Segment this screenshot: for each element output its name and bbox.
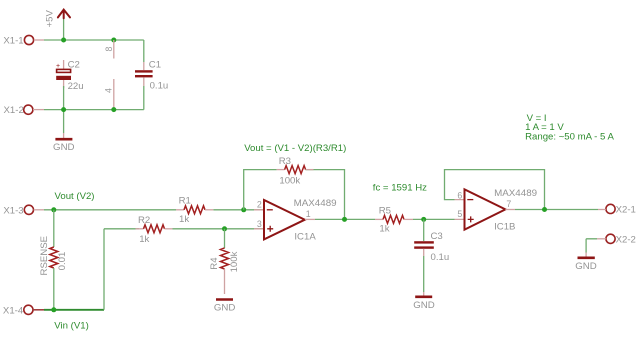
wire net IC1B feedback (445, 170, 545, 210)
label R4 (209, 257, 220, 270)
junction node GND/C2 (61, 107, 66, 112)
resistor R4 (221, 229, 229, 294)
label Vin (V1) (54, 321, 88, 332)
label R3 (279, 156, 291, 167)
label C2 (68, 60, 80, 71)
junction node feedback/out (542, 207, 547, 212)
junction node V1/RSENSE (51, 307, 56, 312)
ground GND1 (53, 133, 75, 153)
junction node GND/pin4 (111, 107, 116, 112)
wire net R3 feedback (244, 170, 345, 220)
resistor R1 (176, 206, 213, 214)
label 22u (68, 81, 84, 92)
pin 1 (306, 209, 311, 219)
wire net V1 bottom (44, 229, 139, 310)
wire net V2 row (44, 209, 264, 211)
ground GND2 (214, 300, 236, 314)
svg-text:GND: GND (575, 261, 597, 272)
label RSENSE (39, 236, 50, 275)
label X2-2 (616, 234, 636, 245)
label X2-1 (616, 204, 636, 215)
junction node C3 tap (421, 217, 426, 222)
svg-text:1: 1 (306, 209, 311, 219)
svg-text:100k: 100k (279, 175, 300, 186)
label C1 (149, 59, 161, 70)
wire net X2-2 gnd (586, 239, 597, 253)
wire net GND bottom rail (44, 86, 144, 133)
label +5V (45, 10, 56, 28)
label MAX4489 IC1A (294, 198, 337, 209)
junction node V2/R3 (241, 207, 246, 212)
connector X2-2 (597, 234, 615, 243)
op-amp IC1A (254, 200, 315, 239)
label X1-1 (3, 35, 23, 46)
label X1-2 (4, 105, 24, 116)
svg-text:+5V: +5V (45, 10, 56, 28)
connector X1-4 (24, 305, 44, 314)
connector X2-1 (598, 204, 615, 213)
capacitor C2 (56, 60, 71, 88)
svg-text:100k: 100k (229, 251, 240, 272)
ground GND4 (575, 253, 597, 273)
svg-text:Vout = (V1 - V2)(R3/R1): Vout = (V1 - V2)(R3/R1) (244, 143, 346, 154)
label C3 (431, 231, 443, 242)
svg-text:R5: R5 (379, 205, 391, 216)
pin 6 (457, 190, 462, 200)
junction node +5V/C2 (61, 38, 66, 43)
label X1-3 (3, 205, 23, 216)
svg-text:1k: 1k (179, 214, 189, 225)
svg-text:IC1A: IC1A (294, 232, 316, 243)
svg-text:0.1u: 0.1u (431, 252, 450, 263)
label R2 (138, 215, 150, 226)
svg-text:Vin (V1): Vin (V1) (54, 321, 88, 332)
label 1k R1 (179, 214, 189, 225)
label 100k R3 (279, 175, 300, 186)
svg-text:0.1u: 0.1u (150, 81, 169, 92)
connector X1-2 (24, 105, 44, 114)
svg-text:C1: C1 (149, 59, 161, 70)
capacitor C1 (135, 62, 153, 86)
svg-text:MAX4489: MAX4489 (494, 188, 537, 199)
op-amp IC1B (455, 189, 516, 229)
label 1 A = 1 V (525, 122, 564, 133)
wire net pin3 row (173, 228, 265, 230)
label 0.01 (57, 252, 68, 271)
ground GND3 (413, 292, 435, 311)
svg-text:IC1B: IC1B (494, 221, 515, 232)
svg-text:RSENSE: RSENSE (39, 236, 50, 275)
svg-text:+: + (56, 63, 60, 70)
supply +5V arrow symbol (58, 10, 70, 19)
IC1 power pin 4 (103, 79, 113, 108)
wire net +5V top rail (44, 18, 144, 63)
label 100k R4 (229, 251, 240, 272)
connector X1-1 (24, 35, 44, 44)
svg-text:1k: 1k (139, 234, 149, 245)
connector X1-3 (24, 205, 44, 214)
label Range (525, 132, 614, 143)
svg-text:R2: R2 (138, 215, 150, 226)
label 1k R2 (139, 234, 149, 245)
label MAX4489 IC1B (494, 188, 537, 199)
label IC1B (494, 221, 515, 232)
label Vout formula (244, 143, 346, 154)
IC1 power pin 8 (104, 40, 114, 59)
svg-text:X1-3: X1-3 (3, 205, 23, 216)
svg-text:3: 3 (257, 219, 262, 229)
svg-text:R1: R1 (179, 195, 191, 206)
svg-text:X2-2: X2-2 (616, 234, 636, 245)
svg-text:1k: 1k (379, 224, 389, 235)
resistor R5 (375, 215, 413, 223)
pin 5 (457, 209, 462, 219)
label 0.1u (150, 81, 169, 92)
svg-text:X1-1: X1-1 (3, 35, 23, 46)
svg-text:MAX4489: MAX4489 (294, 198, 337, 209)
svg-text:22u: 22u (68, 81, 84, 92)
label IC1A (294, 232, 316, 243)
svg-text:fc = 1591 Hz: fc = 1591 Hz (373, 183, 427, 194)
wire net output (515, 209, 598, 211)
svg-text:R4: R4 (209, 257, 220, 270)
svg-text:C3: C3 (431, 231, 443, 242)
label 1k R5 (379, 224, 389, 235)
svg-text:C2: C2 (68, 60, 80, 71)
resistor R2 (136, 225, 173, 233)
wire net IC1A out (315, 218, 375, 220)
label R1 (179, 195, 191, 206)
svg-text:4: 4 (103, 88, 113, 93)
label Vout (V2) (55, 191, 95, 202)
resistor R3 (277, 166, 314, 174)
svg-text:0.01: 0.01 (57, 252, 68, 271)
label R5 (379, 205, 391, 216)
label fc (373, 183, 427, 194)
svg-text:Range: ~50 mA - 5 A: Range: ~50 mA - 5 A (525, 132, 614, 143)
label X1-4 (3, 305, 24, 316)
pin 3 (257, 219, 262, 229)
svg-text:7: 7 (506, 199, 511, 209)
svg-text:X2-1: X2-1 (616, 204, 636, 215)
svg-text:GND: GND (214, 302, 236, 313)
pin 7 (506, 199, 511, 209)
resistor RSENSE (50, 210, 58, 310)
svg-text:6: 6 (457, 190, 462, 200)
svg-text:X1-2: X1-2 (4, 105, 24, 116)
label V = I (527, 113, 547, 124)
svg-text:2: 2 (257, 200, 262, 210)
junction node +5V/pin8 (111, 38, 116, 43)
junction node V2/RSENSE (51, 207, 56, 212)
pin 2 (257, 200, 262, 210)
junction node R4 tap (222, 226, 227, 231)
capacitor C3 (414, 219, 434, 292)
svg-text:X1-4: X1-4 (3, 305, 24, 316)
label 0.1u C3 (431, 252, 450, 263)
wire net lpf (413, 218, 455, 220)
svg-text:8: 8 (104, 46, 114, 51)
svg-text:R3: R3 (279, 156, 291, 167)
svg-text:5: 5 (457, 209, 462, 219)
svg-text:GND: GND (53, 142, 75, 153)
svg-text:Vout (V2): Vout (V2) (55, 191, 95, 202)
svg-text:GND: GND (413, 300, 435, 311)
junction node R3/out (342, 217, 347, 222)
